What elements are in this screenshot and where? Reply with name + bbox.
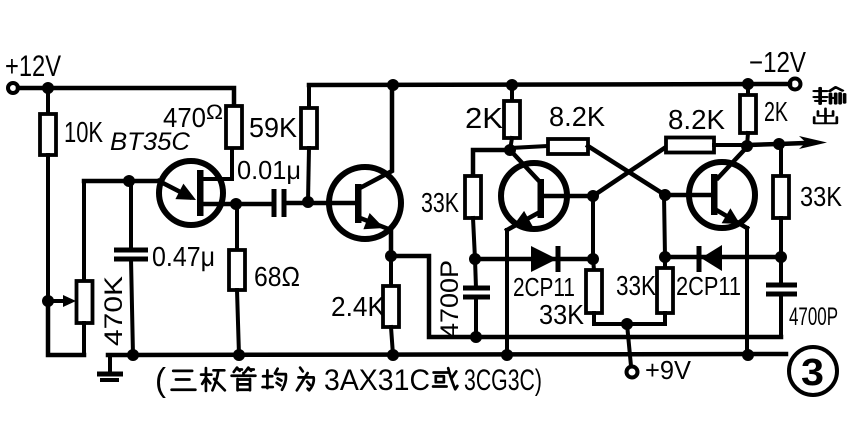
diode D2 2CP11 [665,245,781,301]
svg-text:2K: 2K [465,103,504,135]
wire emitter to cap bottom [391,256,476,337]
capacitor C3 4700P [436,259,490,338]
resistor R9 8.2K [510,101,665,195]
node dot Q3 collector [504,144,516,156]
node dot rail x393 [387,79,399,91]
node dot C3 bottom [470,331,482,343]
svg-text:+9V: +9V [645,355,692,385]
figure number circled 3 [789,347,837,395]
node dot wiper [42,295,54,307]
svg-text:33K: 33K [421,187,459,218]
resistor R14 33K [773,144,842,257]
svg-text:33K: 33K [616,270,656,301]
transistor Q1 BT35C [159,148,236,225]
node dot C1 ground [127,349,139,361]
resistor R8 33K [421,150,510,259]
node dot D1 cathode [587,253,599,265]
svg-text:+12V: +12V [5,50,61,83]
capacitor C2 0.01u [236,155,306,217]
node dot output [741,140,753,152]
output arrow [779,136,827,149]
transistor Q2 [308,85,401,256]
svg-text:2CP11: 2CP11 [676,271,741,301]
resistor R6 2.4K [331,256,399,355]
wire Q3 base cross to R12 [593,147,666,196]
wire output [747,144,779,145]
resistor R1 10K [40,88,103,301]
svg-text:3AX31C: 3AX31C [324,364,430,397]
label shuchu output [814,87,844,123]
svg-text:Ω: Ω [206,101,223,124]
node dot Q1 collector [230,198,242,210]
capacitor C1 0.47u [114,181,215,355]
+12V terminal [5,50,61,93]
node dot Q3 base [587,190,599,202]
svg-text:470K: 470K [100,276,128,346]
svg-text:59K: 59K [249,112,297,143]
node dot rail x512 [506,79,518,91]
svg-text:470: 470 [163,102,206,133]
node dot Q4 emitter ground [742,349,754,361]
wire ground rail [108,354,786,355]
node dot Q3 emitter ground [501,349,513,361]
transistor Q4 [665,147,755,355]
potentiometer wiper arrow [48,295,76,307]
node dot on +12V rail [42,82,54,94]
resistor R11 33K [616,257,673,324]
-12V terminal [749,47,807,90]
svg-text:0.01μ: 0.01μ [237,155,301,185]
svg-text:(: ( [155,361,166,398]
svg-text:2CP11: 2CP11 [513,272,575,302]
resistor R10 33K [539,259,627,330]
svg-text:33K: 33K [539,299,584,330]
svg-text:33K: 33K [800,181,842,212]
svg-text:68Ω: 68Ω [254,261,300,292]
svg-text:3: 3 [801,352,824,394]
node dot rail x748 [742,78,754,90]
wire bottom link line [476,335,781,340]
transistor Q3 [501,150,593,355]
node dot R6 ground [387,349,399,361]
svg-text:8.2K: 8.2K [668,104,725,135]
ground symbol [97,355,123,380]
resistor R5 59K [249,85,317,202]
svg-text:10K: 10K [64,117,103,149]
wire +12V rail [18,88,234,106]
node dot Q2 emitter [385,250,397,262]
wire emitter node line [84,179,159,184]
wire Q3 base down [591,196,595,259]
node dot emitter line [123,175,135,187]
node dot base Q2 [302,196,314,208]
node dot output2 [773,138,785,150]
svg-text:2K: 2K [764,96,788,127]
potentiometer R2 470K [77,181,129,355]
resistor R7 2K [465,85,520,150]
node dot D2 anode [775,251,787,263]
svg-text:4700P: 4700P [436,260,464,338]
resistor R13 2K [740,84,788,146]
node dot D2 cathode node [659,251,671,263]
capacitor C4 4700P [766,257,838,337]
wire -12V rail [309,84,790,85]
node dot R4 ground [233,349,245,361]
resistor R3 470ohm [163,101,242,148]
node dot Q4 base [659,189,671,201]
node dot +9V [621,318,633,330]
wire wiper to pot bottom [48,301,84,355]
svg-text:2.4K: 2.4K [331,291,385,322]
resistor R12 8.2K [666,104,747,153]
svg-text:0.47μ: 0.47μ [152,241,215,272]
svg-text:−12V: −12V [749,47,807,79]
+9V terminal [627,324,692,385]
node dot D1 anode [469,253,481,265]
caption text [155,361,542,398]
svg-text:4700P: 4700P [789,303,838,331]
diode D1 2CP11 [475,246,593,302]
svg-text:8.2K: 8.2K [549,101,605,132]
wire Q4 base down [664,195,665,257]
svg-text:3CG3C): 3CG3C) [464,364,542,397]
resistor R4 68ohm [229,204,300,355]
